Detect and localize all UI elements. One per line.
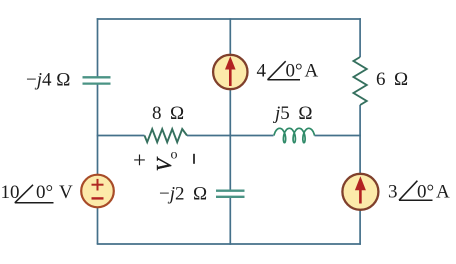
voltage source plus sign [92, 179, 104, 191]
wire center vertical upper [229, 18, 231, 190]
wire left vertical upper [97, 18, 99, 77]
svg-text:0°: 0° [417, 182, 434, 203]
label 10 angle 0 V [1, 182, 74, 203]
wire middle horizontal right segment [315, 135, 361, 137]
inductor j5 coil [274, 128, 315, 142]
voltage source minus sign [92, 197, 104, 199]
svg-text:+: + [133, 148, 146, 173]
svg-text:A: A [305, 61, 319, 82]
label 3 angle 0 A [388, 181, 450, 203]
wire center vertical lower [229, 198, 231, 245]
svg-text:3: 3 [388, 182, 398, 203]
svg-text:j5 Ω: j5 Ω [272, 103, 312, 124]
svg-text:−j2 Ω: −j2 Ω [159, 184, 207, 205]
svg-text:0°: 0° [36, 182, 53, 203]
svg-text:0°: 0° [286, 61, 303, 82]
svg-text:4: 4 [257, 61, 267, 82]
voltage source V1 circle [81, 175, 114, 208]
current source I1 arrow [225, 56, 236, 86]
svg-text:8 Ω: 8 Ω [152, 103, 184, 124]
resistor 6 ohm zigzag [354, 57, 367, 105]
svg-text:−j4 Ω: −j4 Ω [26, 70, 70, 91]
label 4 angle 0 A [257, 61, 319, 82]
wire bottom horizontal [97, 243, 361, 245]
wire middle horizontal mid segment [187, 135, 274, 137]
wire left vertical lower [97, 84, 99, 244]
svg-text:o: o [171, 148, 178, 163]
capacitor C -j2 (plates) [216, 191, 245, 197]
resistor 8 ohm zigzag [145, 129, 188, 142]
wire right vertical lower [359, 105, 361, 245]
label Vo minus rotated [193, 154, 195, 164]
current source I1 4A circle [213, 55, 247, 89]
wire middle horizontal left segment [97, 135, 145, 137]
current source I2 3A circle [342, 174, 378, 210]
svg-text:V: V [59, 182, 73, 203]
svg-text:6 Ω: 6 Ω [376, 69, 408, 90]
svg-text:10: 10 [1, 182, 20, 203]
wire top horizontal [97, 18, 361, 20]
wire right vertical upper [359, 18, 361, 57]
svg-text:A: A [436, 182, 450, 203]
current source I2 arrow [355, 176, 366, 203]
capacitor -j4 (plates) [83, 77, 111, 83]
